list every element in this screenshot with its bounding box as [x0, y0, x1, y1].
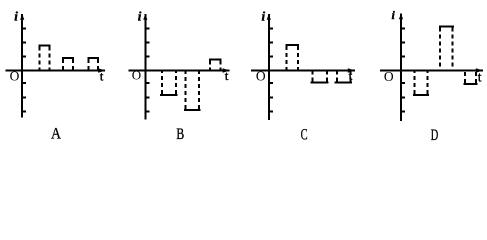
svg-text:O: O [384, 69, 394, 84]
svg-text:D: D [431, 127, 439, 144]
svg-text:i: i [14, 9, 18, 24]
svg-text:A: A [51, 125, 61, 142]
svg-text:t: t [225, 68, 229, 83]
svg-text:O: O [10, 68, 20, 83]
svg-text:t: t [100, 69, 104, 84]
svg-text:t: t [478, 70, 482, 85]
svg-text:O: O [132, 68, 141, 83]
svg-text:i: i [262, 9, 266, 24]
svg-text:B: B [176, 126, 184, 143]
svg-text:t: t [349, 68, 353, 83]
svg-text:O: O [256, 68, 266, 83]
svg-text:i: i [138, 9, 142, 24]
svg-text:C: C [301, 127, 308, 144]
